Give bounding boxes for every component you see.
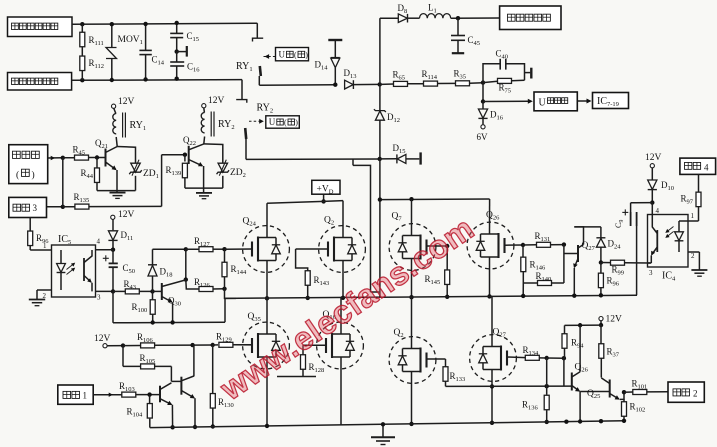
svg-text:1: 1 <box>43 242 47 250</box>
zener D12 <box>379 84 381 110</box>
capacitor C50 <box>112 250 114 264</box>
wire Q26d collector <box>579 325 581 371</box>
node D14-wire <box>333 83 337 87</box>
ground bus <box>150 421 624 428</box>
node gnd Q35 <box>265 424 268 427</box>
wire Q2 gate <box>296 248 328 250</box>
svg-text:12V: 12V <box>606 315 623 325</box>
IC5 pin3 wire <box>96 290 114 292</box>
resistor R44 <box>96 158 98 168</box>
resistor R136 <box>546 358 548 395</box>
capacitor C40 loop <box>483 64 500 83</box>
resistor R105 <box>122 346 124 367</box>
wire R114-R35 <box>438 82 456 84</box>
IC4 internal LED <box>678 221 680 232</box>
wire Q2b source <box>411 372 413 424</box>
wire Q27b drain <box>491 296 493 346</box>
svg-text:12V: 12V <box>118 210 135 220</box>
node neutral-R112 <box>80 78 84 82</box>
resistor R114 <box>424 81 438 86</box>
mosfet Q26 top <box>467 222 514 269</box>
terminal plate right of D15 <box>419 152 421 164</box>
wire R146 to bus <box>522 283 524 296</box>
resistor R101 <box>624 391 633 393</box>
wire battery stub corner <box>352 159 354 165</box>
svg-text:): ) <box>32 170 35 181</box>
12V rail bottom <box>565 324 602 326</box>
node detect tap <box>482 83 484 102</box>
wire Q2 drain <box>342 201 344 238</box>
resistor R99 <box>601 262 611 264</box>
wire live rail <box>72 23 257 24</box>
arrow U-detect to IC <box>577 100 588 102</box>
wire to source bus <box>225 289 237 299</box>
svg-text:U: U <box>539 98 547 109</box>
resistor R126 <box>186 280 199 289</box>
drain bus right <box>380 198 490 201</box>
mid terminal plate <box>175 49 179 53</box>
IC4 pin3 wire <box>648 262 651 264</box>
svg-text:(: ( <box>284 118 287 127</box>
wire Q27b gate <box>507 356 526 359</box>
node live-C15 <box>175 21 179 25</box>
node neutral-C16 <box>175 77 179 81</box>
wire Q22 emitter down <box>203 166 205 191</box>
node D24-R99 <box>599 260 603 264</box>
resistor R144 <box>224 249 226 262</box>
transistor Q26 driver <box>571 373 573 391</box>
drain bus left <box>267 201 343 204</box>
IC5 pin1 wire <box>30 249 51 251</box>
dashed link to U box2 <box>249 120 260 122</box>
diode D10 <box>651 168 653 180</box>
capacitor C15 <box>176 23 178 33</box>
wire Q16 source <box>340 357 342 425</box>
dashed link to U box <box>264 56 276 58</box>
diode D8 <box>380 17 398 19</box>
wire Q29 collector <box>193 345 195 376</box>
diode D13 <box>345 80 354 89</box>
node R131 right <box>562 242 566 246</box>
svg-text:2: 2 <box>691 252 695 260</box>
riser to source bus <box>224 298 226 322</box>
wire Q26 source <box>489 257 491 296</box>
svg-text:): ) <box>295 118 298 127</box>
node neutral-MOV <box>110 78 114 82</box>
node collector2 top <box>190 343 194 347</box>
node D11 out <box>111 248 115 252</box>
wire Q26d emitter down <box>579 392 581 422</box>
wire Q35 source <box>266 357 268 426</box>
box IC7-19 <box>593 93 629 109</box>
optocoupler IC4 box <box>648 215 689 268</box>
svg-text:12V: 12V <box>94 334 111 344</box>
IC5 ground <box>36 290 38 299</box>
capacitor C9 <box>630 203 632 212</box>
inductor L1 <box>419 14 450 19</box>
IC4 internal transistor <box>656 230 658 252</box>
wire +VD stem <box>323 194 325 201</box>
svg-text:(: ( <box>16 170 19 181</box>
resistor R96 right <box>600 263 602 274</box>
resistor R75 <box>498 78 512 83</box>
wire Q21 emitter down <box>116 170 118 191</box>
svg-text:3: 3 <box>97 294 101 302</box>
box U-leak-live U泄(火) <box>276 48 309 61</box>
box battery-relay 蓄电器(合) <box>9 145 48 184</box>
wire Q16 gate <box>303 344 326 346</box>
mid source bus <box>225 295 637 298</box>
box U-leak-neutral U泄(零) <box>266 116 300 128</box>
resistor R103 <box>122 392 136 397</box>
node relay1 input <box>61 156 65 160</box>
wire Q28 collector link <box>171 380 181 382</box>
wire Q28 emitter <box>171 405 173 428</box>
node R127 left rail <box>184 247 188 251</box>
node R126-R144 <box>222 287 226 291</box>
zener ZD1 branch <box>117 147 135 164</box>
diode D24 <box>600 227 602 238</box>
wire Q16 drain <box>340 298 342 334</box>
wire RY2 output <box>246 158 380 160</box>
svg-text:3: 3 <box>33 203 38 213</box>
wire box to node <box>48 157 63 159</box>
diode D15 <box>380 158 397 160</box>
wire Q7 drain <box>411 199 413 235</box>
IC5 pin4 wire <box>96 249 114 251</box>
wire base node down <box>563 358 565 386</box>
wire emitter to Q25 base <box>580 391 610 393</box>
wire D18 to R127 <box>153 248 186 250</box>
node Q22 base <box>183 153 187 157</box>
ground relay2 <box>203 191 205 193</box>
svg-text:1: 1 <box>691 212 695 220</box>
node R43-D18 <box>150 289 154 293</box>
resistor R111 <box>81 24 83 32</box>
mosfet Q7 <box>389 224 436 271</box>
input box mains live 市电输入(火) <box>8 17 73 37</box>
ground relay1 <box>116 191 118 193</box>
IC5 internal LED <box>60 250 62 264</box>
wire gate node to R94 leg <box>547 357 564 359</box>
wire neutral rail <box>72 79 242 82</box>
center ground symbol <box>382 424 384 437</box>
wire C9 down <box>636 226 638 295</box>
resistor R45 <box>63 157 75 159</box>
wire D10 to C9 <box>631 202 653 204</box>
box +VD supply <box>312 180 340 194</box>
mosfet Q27 bottom <box>470 335 517 382</box>
relay contact RY1 <box>256 23 258 38</box>
wire D12 leg down <box>379 159 381 297</box>
IC4 light arrows <box>667 232 674 238</box>
resistor R129 <box>213 344 218 346</box>
wire coil to Q21 collector <box>116 137 117 147</box>
input box mains neutral 市电输入(零) <box>8 73 72 91</box>
transistor Q28 <box>159 386 161 403</box>
IC4 pin1 wire internal <box>679 220 688 222</box>
resistor R130 <box>212 345 214 393</box>
node Q25 emitter <box>620 392 624 399</box>
wire Q27b source <box>491 370 493 423</box>
resistor R102 <box>623 399 625 401</box>
lower drive wire <box>446 385 572 387</box>
resistor R96 left <box>29 218 31 232</box>
wire R131-R140 rail <box>563 245 565 283</box>
resistor R65 <box>394 81 408 86</box>
rail D18node down <box>185 249 187 279</box>
wire collector top <box>574 226 601 228</box>
resistor R104 <box>149 395 151 403</box>
diode D18 <box>152 249 154 264</box>
bridge between legs <box>371 291 380 293</box>
wire Q7 gate <box>427 245 448 247</box>
svg-text:12V: 12V <box>118 97 135 107</box>
resistor R134 <box>525 355 539 360</box>
resistor R127 <box>186 248 199 250</box>
wire Q29 emitter <box>194 398 196 427</box>
node Q28 base <box>147 392 151 396</box>
mosfet Q2 bottom <box>389 337 436 384</box>
resistor R133 <box>445 359 447 367</box>
diode D14 <box>334 41 336 57</box>
svg-text:): ) <box>305 51 308 60</box>
node D12 top <box>378 82 382 86</box>
node R35-C40 <box>481 80 485 84</box>
wire coil to Q22 collector <box>203 137 206 144</box>
zener ZD2 branch <box>204 144 223 163</box>
box drive4 驱动4 <box>680 158 716 174</box>
resistor R139 <box>184 155 186 162</box>
node D10 out <box>650 200 654 204</box>
relay coil RY2 <box>203 108 206 113</box>
box charger circuit 充电器电路 <box>500 6 561 30</box>
node R134-R136 <box>545 356 549 360</box>
IC4 pin2 wire <box>688 251 699 253</box>
transistor Q30 <box>161 283 163 300</box>
transistor Q25 <box>609 380 611 398</box>
wire Q24 drain <box>266 203 268 237</box>
wire drive1 to R103 <box>93 394 121 396</box>
wire Q35 drain <box>266 298 268 334</box>
wire 12V to R106 <box>107 345 123 347</box>
wire Q2 source <box>342 261 344 298</box>
node Q24 gate <box>222 247 226 251</box>
resistor R94 <box>564 325 566 333</box>
resistor R140 <box>523 282 537 284</box>
mosfet Q35 <box>243 322 290 369</box>
gate-return wire <box>112 291 114 322</box>
resistor R145 <box>446 246 448 270</box>
resistor R37 <box>600 325 602 343</box>
resistor R97 <box>698 174 700 191</box>
mosfet Q16 <box>317 322 364 369</box>
wire Q26 drain <box>489 199 491 234</box>
relay coil RY1 <box>114 108 116 113</box>
resistor R35 <box>456 81 470 86</box>
varistor MOV1 <box>111 24 113 47</box>
resistor R131 <box>523 244 537 246</box>
svg-text:2: 2 <box>693 389 698 399</box>
wire Q24 gate <box>225 248 253 250</box>
wire main DC rail up <box>379 18 381 84</box>
capacitor C16 <box>176 52 178 62</box>
node Q26 gate net <box>521 243 525 247</box>
mosfet Q24 <box>243 226 290 273</box>
transistor Q29 <box>180 377 182 395</box>
diode D11 <box>112 219 114 230</box>
node Q30 collector <box>184 277 188 281</box>
node C45 <box>456 16 460 20</box>
capacitor C14 <box>145 24 147 50</box>
wire to R129 <box>193 344 213 346</box>
box U-detect U检测 <box>534 92 577 111</box>
mosfet Q2 top <box>319 226 366 273</box>
IC5 internal transistor <box>83 258 85 281</box>
wire contact RY1 output <box>259 84 335 87</box>
resistor R128 <box>302 345 304 354</box>
wire R65-R114 <box>408 83 424 85</box>
svg-text:6V: 6V <box>477 132 489 142</box>
box drive1 驱动1 <box>58 385 93 404</box>
transistor Q21 <box>105 149 107 167</box>
terminal plate right of R75 <box>525 72 531 74</box>
wire to Q22 base <box>161 155 163 207</box>
wire Q35 gate <box>233 344 252 346</box>
wire R139 to emitter <box>185 187 204 189</box>
wire R105 leg <box>170 366 172 381</box>
wire Q30 emitter down <box>172 302 174 322</box>
svg-text:MOV1: MOV1 <box>118 35 143 46</box>
wire Q26 gate <box>505 244 524 246</box>
resistor R100 <box>152 291 154 299</box>
box drive2 驱动2 <box>668 382 704 402</box>
node live-R111 <box>80 22 84 26</box>
relay contact RY2 <box>241 80 243 100</box>
svg-text:4: 4 <box>97 238 101 246</box>
node live-C14 <box>143 22 147 26</box>
resistor R135 run <box>47 206 63 208</box>
wire Q2b gate <box>427 358 446 360</box>
svg-text:(: ( <box>294 51 297 60</box>
node Q7 drain <box>409 197 413 201</box>
svg-text:4: 4 <box>704 163 709 173</box>
resistor R43 <box>111 289 115 293</box>
node D15 <box>378 157 382 161</box>
svg-text:U: U <box>269 117 276 127</box>
resistor R112 <box>80 56 85 71</box>
svg-text:U: U <box>279 50 286 60</box>
capacitor C45 <box>457 18 459 35</box>
wire Q24 source <box>266 261 268 299</box>
resistor R146 <box>522 245 524 257</box>
node neutral-C14 <box>143 77 147 81</box>
wire to U-detect box <box>483 100 529 102</box>
wire R44 to ground <box>97 190 117 192</box>
wire Q7 source <box>411 259 413 298</box>
transistor Q22 <box>188 146 190 164</box>
wire R99 to pin3 <box>650 262 653 264</box>
gate branch R143 <box>296 249 308 271</box>
svg-text:3: 3 <box>649 269 653 277</box>
box drive3 驱动3 <box>9 197 47 217</box>
node dots bus right <box>564 420 568 424</box>
svg-text:12V: 12V <box>645 153 662 163</box>
IC5 light arrows <box>67 264 75 270</box>
wire Q2b drain <box>411 297 413 348</box>
svg-text:1: 1 <box>83 391 88 401</box>
node Q21 base <box>95 155 99 159</box>
resistor R106 <box>123 345 140 347</box>
node live-MOV <box>110 22 114 26</box>
optocoupler IC5 box <box>52 245 96 297</box>
diode D16 <box>482 102 484 109</box>
IC4 ground <box>698 252 700 270</box>
transistor Q27 driver <box>564 253 578 255</box>
wire L1 to charger box <box>451 17 500 19</box>
svg-text:12V: 12V <box>208 96 225 106</box>
wire D10 to IC4 pin4 <box>651 203 653 215</box>
terminal bar above D14 <box>328 39 342 41</box>
IC5 pin2 wire <box>37 289 52 291</box>
